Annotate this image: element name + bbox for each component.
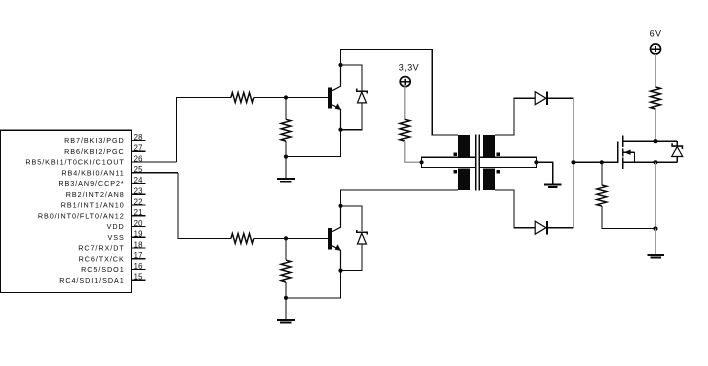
pin 27 RB6/KBI2/PGC stub [132,150,146,152]
transformer T1 right winding upper coil [483,135,495,156]
node right center tap [534,160,538,164]
node Q1 collector [338,63,342,67]
svg-text:RB5/KBI1/T0CKI/C1OUT: RB5/KBI1/T0CKI/C1OUT [25,158,124,167]
transformer T1 left winding lower coil [458,169,470,190]
pin 16 RC5/SDO1 stub [132,269,146,271]
resistor R5 (bottom base pulldown) [281,260,291,282]
node gate bus [571,160,575,164]
svg-text:24: 24 [134,176,144,185]
resistor R3 (3.3V feed) [400,119,410,141]
left center tap lead [422,157,475,167]
resistor R4 (bottom base series) [231,234,254,244]
wire D2 to emitter node [341,244,362,271]
wire emitter return bottom [286,271,341,298]
svg-text:RB6/KBI2/PGC: RB6/KBI2/PGC [64,147,125,156]
resistor R2 (top base pulldown) [281,119,291,141]
supply symbol 3.3V [400,77,410,87]
node source/ground [653,227,657,231]
node gate resistor junction [600,160,604,164]
transformer core line left [475,135,477,191]
pin 18 RC7/RX/DT stub [132,247,146,249]
svg-text:28: 28 [134,133,143,142]
node Q1 emitter [338,128,342,132]
node base Q2 [284,236,288,240]
wire R5 to emitter node bottom [285,282,287,298]
pin 17 RC6/TX/CK stub [132,258,146,260]
svg-text:25: 25 [134,165,144,174]
svg-text:RB3/AN9/CCP2*: RB3/AN9/CCP2* [58,179,124,188]
supply symbol 6V [651,44,661,54]
transformer T1 right winding lower coil [483,169,495,190]
transformer core line right [478,135,480,191]
polarity mark lower-right [497,170,501,174]
diode D3 (top rectifier) [535,91,547,105]
MOSFET M1 (N-channel) [618,136,635,169]
svg-text:RC4/SDI1/SDA1: RC4/SDI1/SDA1 [59,276,124,285]
wire pin25 to base resistor R4 [178,173,231,239]
svg-text:3,3V: 3,3V [399,62,419,72]
pin 26 RB5/KBI1/T0CKI/C1OUT stub [132,161,177,163]
node base Q1 [284,95,288,99]
wire pin26 to base resistor R1 [177,98,231,163]
diode D1 (across Q1 C-E) [357,89,367,103]
right center tap lead [480,157,537,167]
pin 22 RB1/INT1/AN10 stub [132,204,146,206]
transformer T1 left winding upper coil [458,135,470,156]
svg-text:RB7/BKI3/PGD: RB7/BKI3/PGD [64,136,125,145]
wire gate bus to gate [574,161,618,163]
wire node to R2 [285,98,287,120]
polarity mark upper-right [497,152,501,156]
node emitter/ground junction top [284,155,288,159]
pin 25 RB4/KBI0/AN11 stub [132,172,179,174]
svg-text:19: 19 [134,230,143,239]
polarity mark upper-left [453,152,457,156]
pin 19 VSS stub [132,236,146,238]
wire R1 to Q1 base [254,97,328,99]
resistor R7 (gate pulldown) [597,185,607,206]
wire transformer lower-right to D4 [495,190,535,228]
node Q2 collector [338,204,342,208]
wire 6V to R6 [655,54,657,87]
pin 20 VDD stub [132,226,146,228]
diode D2 (across Q2 C-E) [357,230,367,244]
drain wire [623,140,677,142]
wire Q1 collector to transformer upper-left [341,49,459,134]
wire collector to D1 [341,65,362,90]
wire transformer upper-right to D3 [495,98,535,135]
svg-text:27: 27 [134,144,143,153]
pin 28 RB7/BKI3/PGD stub [132,140,146,142]
svg-text:RB2/INT2/AN8: RB2/INT2/AN8 [66,190,125,199]
wire Q2 collector to transformer lower-left [341,190,459,206]
wire R4 to Q2 base [254,237,328,239]
ground (transformer secondary tap) [544,185,562,188]
svg-text:RB4/KBI0/AN11: RB4/KBI0/AN11 [61,168,124,177]
node Q2 emitter [338,269,342,273]
wire D1 to emitter node [341,103,362,130]
svg-text:16: 16 [134,262,143,271]
wire emitter return top [286,130,341,157]
svg-text:6V: 6V [650,29,662,39]
wire to ground bottom [285,298,287,319]
wire D3 to gate bus [548,97,574,99]
svg-text:VDD: VDD [107,222,125,231]
node emitter/ground junction bottom [284,296,288,300]
svg-text:21: 21 [134,208,143,217]
svg-text:RB0/INT0/FLT0/AN12: RB0/INT0/FLT0/AN12 [38,211,125,220]
diode D4 (bottom rectifier) [535,221,547,235]
svg-text:RC6/TX/CK: RC6/TX/CK [79,254,125,263]
svg-text:17: 17 [134,251,143,260]
wire R3 to left center tap [405,141,422,162]
pin 23 RB2/INT2/AN8 stub [132,193,146,195]
ground (output stage) [648,255,664,258]
node source [653,160,657,164]
transistor Q2 (NPN, bottom) [328,206,341,271]
resistor R1 (top base series) [231,93,254,103]
wire node to R7 [601,162,603,185]
ground (bottom driver) [277,320,295,323]
ground (top driver) [277,179,295,182]
svg-text:23: 23 [134,187,143,196]
svg-text:RB1/INT1/AN10: RB1/INT1/AN10 [61,201,125,210]
wire D4 to gate bus [548,227,574,229]
wire collector to D2 [341,206,362,231]
svg-text:RC5/SDO1: RC5/SDO1 [81,265,125,274]
svg-text:15: 15 [134,273,144,282]
svg-text:VSS: VSS [107,233,124,242]
svg-text:22: 22 [134,197,143,206]
resistor R6 (drain load) [651,87,661,109]
gate bus vertical [573,98,575,228]
wire 3.3V to R3 [404,87,406,120]
svg-text:18: 18 [134,240,143,249]
wire node to R5 [285,238,287,260]
wire to ground top [285,157,287,179]
pin 21 RB0/INT0/FLT0/AN12 stub [132,215,146,217]
svg-text:26: 26 [134,154,143,163]
wire R2 to emitter node [285,141,287,157]
polarity mark lower-left [453,170,457,174]
wire R7 to source node [602,206,656,229]
IC U1 PIC microcontroller body [1,130,132,292]
wire right tap to ground [536,162,552,183]
transistor Q1 (NPN, top) [328,65,341,130]
wire node to ground [655,229,657,254]
wire R6 to drain node [655,109,657,141]
node drain [653,139,657,143]
node left center tap [420,160,424,164]
pin 24 RB3/AN9/CCP2* stub [132,183,146,185]
svg-text:20: 20 [134,219,144,228]
source wire [623,161,677,163]
svg-text:RC7/RX/DT: RC7/RX/DT [78,244,125,253]
zener diode D5 (drain-source clamp) [672,141,683,162]
pin 15 RC4/SDI1/SDA1 stub [132,279,146,281]
wire source to ground node [655,162,657,228]
